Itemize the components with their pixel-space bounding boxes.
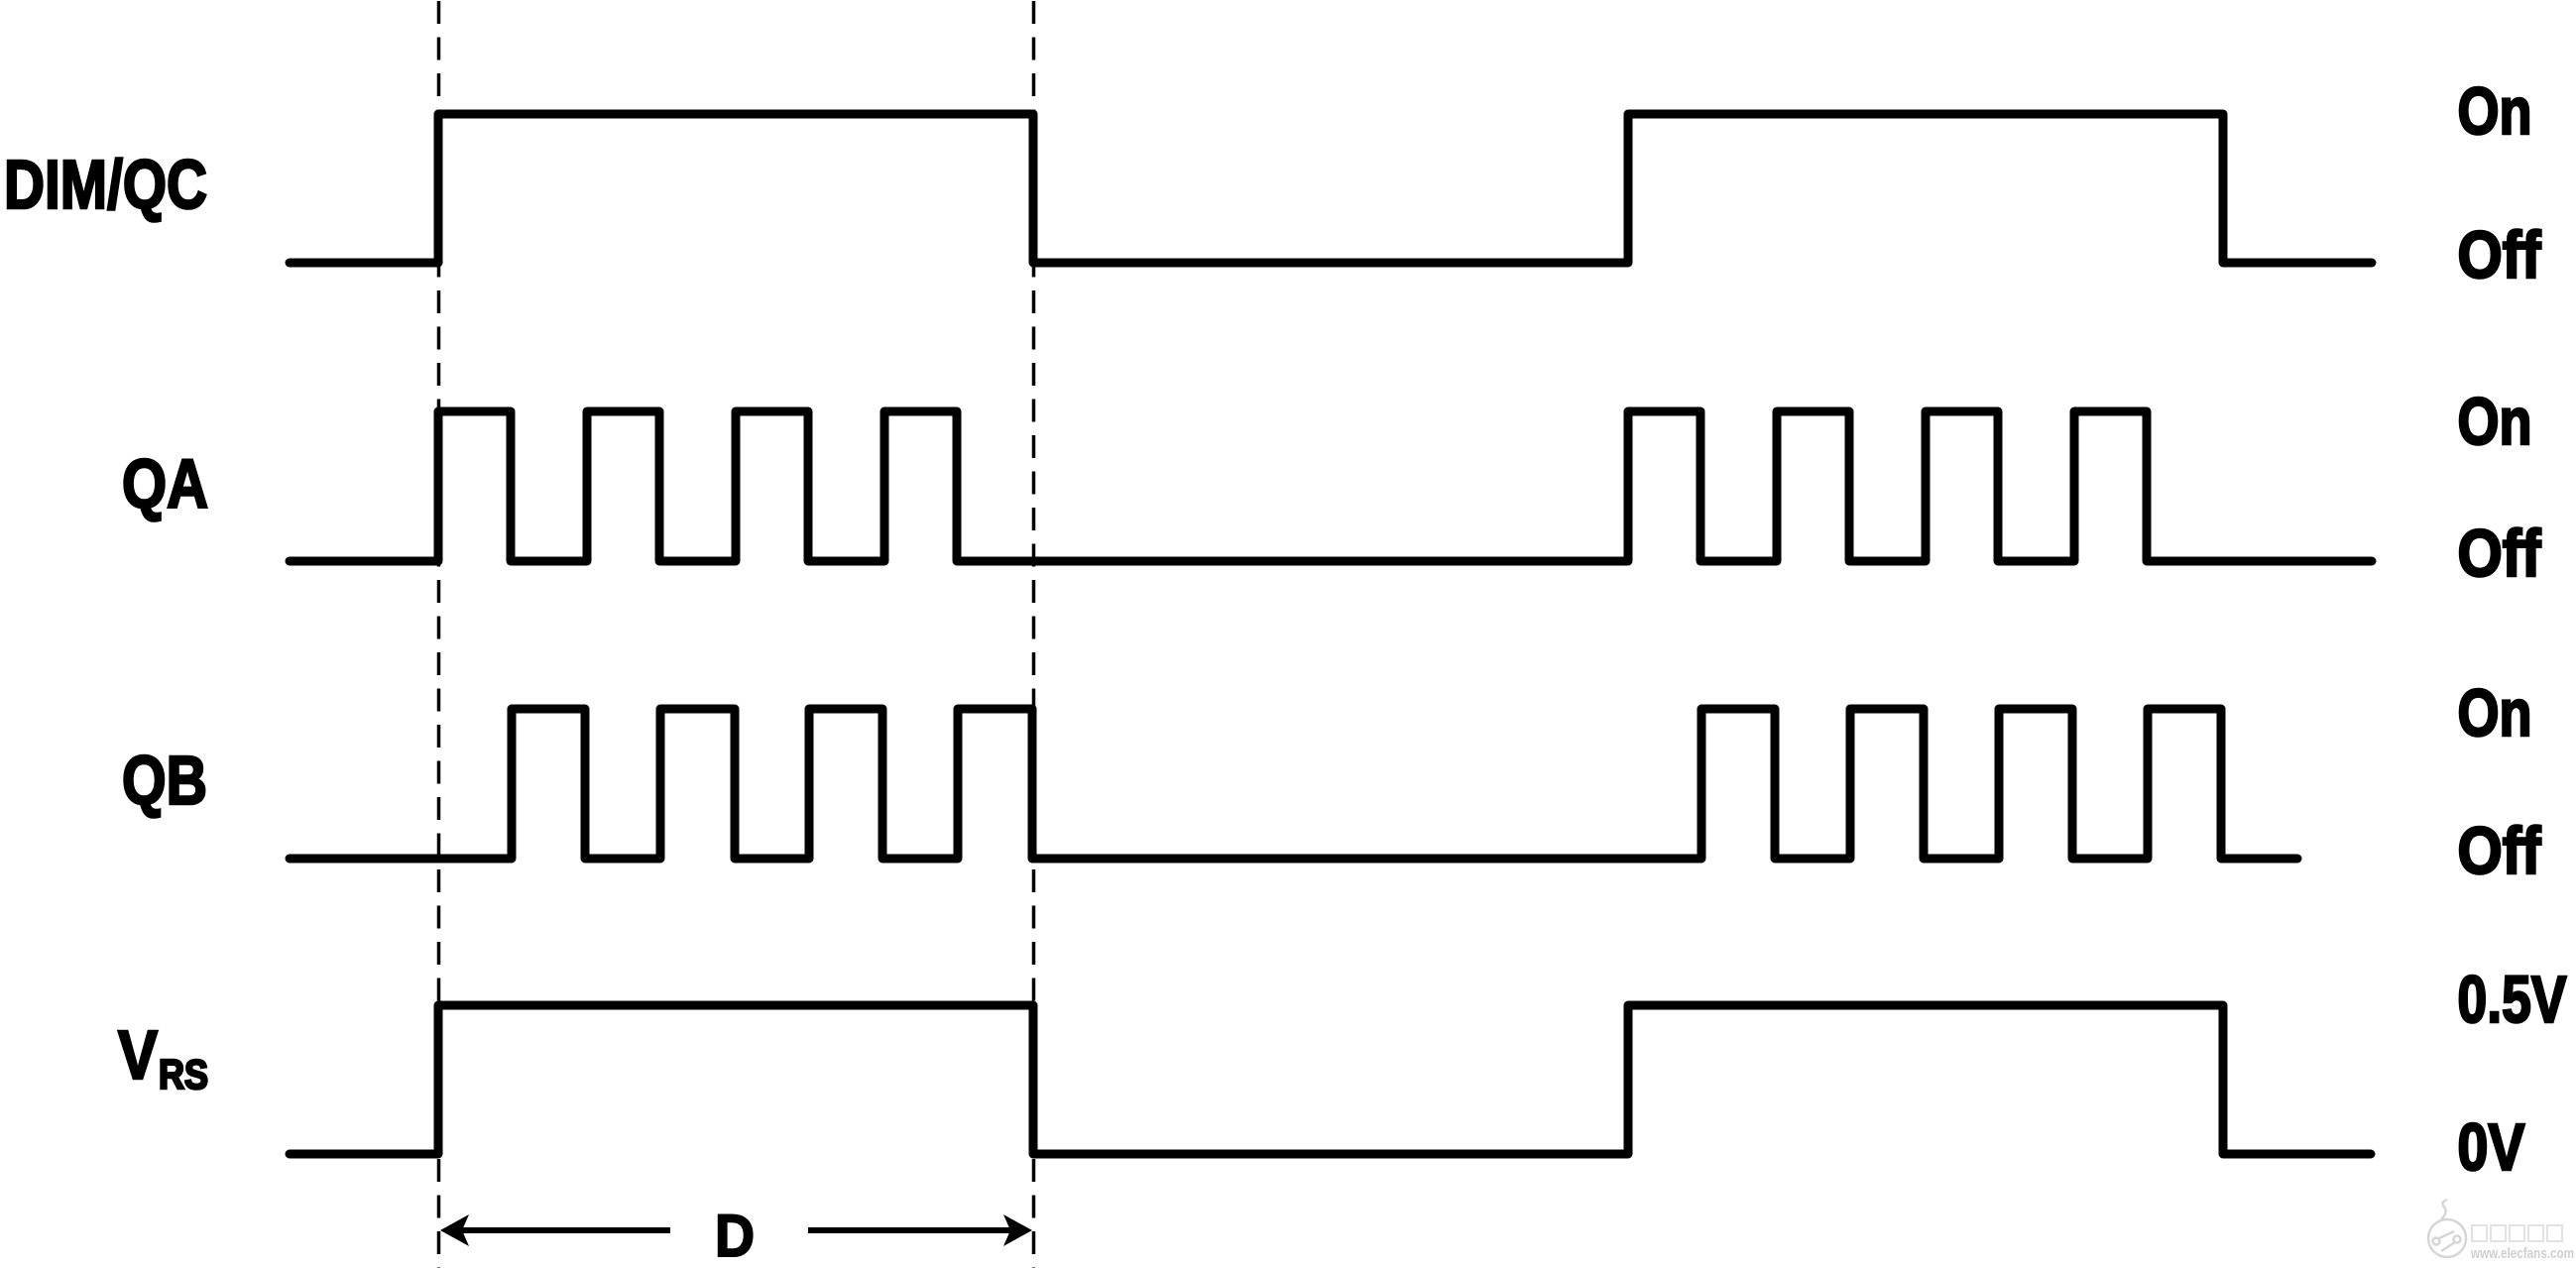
svg-text:V: V bbox=[118, 1016, 158, 1094]
dimension arrow right segment bbox=[808, 1227, 1012, 1233]
svg-text:www.elecfans.com: www.elecfans.com bbox=[2470, 1245, 2574, 1262]
watermark logo bbox=[2428, 1200, 2466, 1257]
svg-text:On: On bbox=[2458, 74, 2532, 149]
waveform QA bbox=[290, 411, 2372, 561]
svg-text:Off: Off bbox=[2458, 814, 2542, 888]
dashed line t2 bbox=[1032, 1, 1036, 1268]
svg-text:QB: QB bbox=[122, 742, 207, 819]
watermark chinese text bbox=[2472, 1225, 2562, 1241]
waveform QB bbox=[290, 709, 2297, 859]
dimension arrowhead right bbox=[1003, 1214, 1032, 1246]
svg-text:On: On bbox=[2458, 385, 2532, 459]
dimension arrow left segment bbox=[459, 1227, 670, 1233]
svg-text:D: D bbox=[715, 1203, 755, 1268]
waveform VRS bbox=[290, 1005, 2371, 1154]
waveform DIM/QC bbox=[290, 114, 2372, 263]
dimension arrowhead left bbox=[440, 1214, 469, 1246]
svg-text:0.5V: 0.5V bbox=[2458, 963, 2567, 1037]
svg-text:QA: QA bbox=[122, 445, 208, 522]
svg-text:RS: RS bbox=[159, 1051, 208, 1097]
svg-text:Off: Off bbox=[2458, 517, 2542, 591]
dashed line t1 bbox=[437, 1, 441, 1268]
svg-text:On: On bbox=[2458, 676, 2532, 750]
svg-text:DIM/QC: DIM/QC bbox=[4, 146, 207, 223]
svg-text:0V: 0V bbox=[2458, 1110, 2525, 1185]
svg-text:Off: Off bbox=[2458, 218, 2542, 292]
